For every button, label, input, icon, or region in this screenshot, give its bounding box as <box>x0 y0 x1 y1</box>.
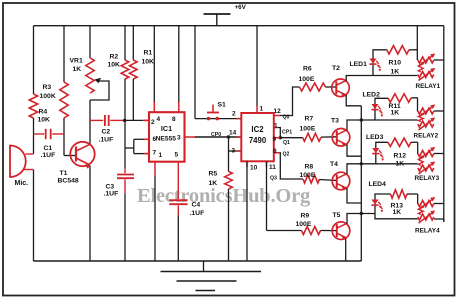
svg-text:R10: R10 <box>389 60 402 67</box>
wire: CP1 stub <box>274 127 278 129</box>
transistor T5 <box>332 222 350 240</box>
svg-text:R5: R5 <box>209 171 218 178</box>
svg-text:4: 4 <box>157 116 161 123</box>
svg-text:100E: 100E <box>299 76 315 83</box>
wire: Q2 output <box>274 152 280 154</box>
relay RELAY4 <box>418 201 434 207</box>
capacitor C1 <box>34 133 45 135</box>
resistor R7 <box>303 133 322 141</box>
resistor R5 <box>228 137 230 172</box>
svg-text:T3: T3 <box>331 118 339 125</box>
LED1 branch wire <box>373 50 387 76</box>
svg-text:Mic.: Mic. <box>15 180 29 187</box>
wire: T5 collector / channel 4 line <box>347 214 375 225</box>
resistor R13 <box>391 190 408 198</box>
resistor R2 <box>124 26 126 60</box>
wire: ground bus <box>34 260 362 262</box>
transistor T4 <box>332 172 350 190</box>
svg-text:RELAY3: RELAY3 <box>415 175 440 182</box>
LED LED2 <box>371 104 378 109</box>
svg-text:IC1: IC1 <box>161 124 172 133</box>
wire: T1 emitter to ground <box>89 166 91 262</box>
wire: CP0 line IC1 pin3 to IC2 pin14 <box>195 136 241 138</box>
svg-text:7490: 7490 <box>249 136 267 145</box>
transistor T3 <box>332 129 350 147</box>
svg-text:9: 9 <box>273 136 277 143</box>
wire: relay supply column ch1 <box>416 26 418 60</box>
node: trigger junction <box>123 119 126 122</box>
wire: Q3 to R9 <box>267 230 302 232</box>
wire: T2 collector / channel 1 line <box>346 76 417 82</box>
svg-text:Q0: Q0 <box>283 115 290 121</box>
wire: T3 emitter chain <box>347 145 361 157</box>
LED LED1 <box>369 59 376 64</box>
resistor R12 <box>388 138 411 146</box>
svg-text:T4: T4 <box>330 161 338 168</box>
wire: T5 emitter to ground <box>345 239 347 262</box>
svg-text:C3: C3 <box>106 184 115 191</box>
svg-text:100E: 100E <box>296 221 312 228</box>
wire: emitter/ground column <box>360 106 362 261</box>
svg-text:S1: S1 <box>218 102 227 109</box>
resistor R3 <box>60 82 68 118</box>
svg-text:LED4: LED4 <box>369 181 387 188</box>
wire: VR1 to T1 collector <box>89 100 91 145</box>
microphone Mic <box>10 146 26 178</box>
svg-text:1K: 1K <box>209 180 218 187</box>
svg-text:.1UF: .1UF <box>41 152 56 159</box>
potentiometer VR1 <box>89 26 91 58</box>
resistor R10 <box>387 46 409 54</box>
svg-text:RELAY4: RELAY4 <box>415 228 440 235</box>
svg-text:5: 5 <box>175 152 179 159</box>
resistor R9 <box>302 227 321 235</box>
wire: IC1 pin8 to rail <box>178 26 180 102</box>
resistor R11 <box>388 94 411 102</box>
IC1 pin stubs <box>144 119 149 121</box>
svg-text:R7: R7 <box>305 116 314 123</box>
svg-text:R2: R2 <box>110 54 119 61</box>
svg-text:LED2: LED2 <box>363 92 381 99</box>
svg-text:R9: R9 <box>301 213 310 220</box>
resistor R6 <box>300 83 326 91</box>
svg-text:RELAY2: RELAY2 <box>414 133 439 140</box>
svg-text:1K: 1K <box>391 110 400 117</box>
svg-text:8: 8 <box>172 116 176 123</box>
svg-text:10: 10 <box>250 165 258 172</box>
svg-text:Q1: Q1 <box>283 140 290 146</box>
capacitor C2 <box>90 119 103 121</box>
LED LED3 <box>372 148 379 153</box>
svg-text:10K: 10K <box>108 62 121 69</box>
wire: IC2 pin10 to ground <box>246 161 248 261</box>
wire: relay2 top feed <box>417 98 419 112</box>
svg-text:1K: 1K <box>396 161 405 168</box>
relay RELAY2 <box>418 108 434 114</box>
IC2 left pin stubs <box>237 118 242 120</box>
svg-text:C4: C4 <box>192 202 201 209</box>
svg-text:7: 7 <box>153 150 157 157</box>
svg-text:12: 12 <box>274 108 282 115</box>
wire: right +6V column <box>443 26 445 222</box>
svg-text:.1UF: .1UF <box>104 191 119 198</box>
svg-text:T2: T2 <box>332 65 340 72</box>
svg-text:11: 11 <box>269 164 276 171</box>
capacitor C3 <box>124 120 126 168</box>
wire: Q1 output <box>274 137 280 139</box>
LED4 branch wire <box>375 194 391 214</box>
wire: IC2 pin1 to rail <box>256 26 258 106</box>
svg-text:+6V: +6V <box>235 4 247 11</box>
svg-text:LED1: LED1 <box>350 61 368 68</box>
svg-text:8: 8 <box>273 148 277 155</box>
svg-text:BC548: BC548 <box>58 178 79 185</box>
svg-text:100K: 100K <box>40 93 56 100</box>
svg-text:3: 3 <box>177 135 181 142</box>
svg-text:1: 1 <box>274 123 278 130</box>
svg-text:IC2: IC2 <box>251 125 264 134</box>
svg-text:Q3: Q3 <box>270 176 277 182</box>
resistor R8 <box>303 175 320 183</box>
svg-text:2: 2 <box>232 111 236 118</box>
transistor T1 BC548 <box>64 155 76 157</box>
ground symbol <box>203 261 205 272</box>
LED3 branch wire <box>376 142 388 164</box>
svg-text:1K: 1K <box>393 209 402 216</box>
wire: IC1 pin1 to ground <box>154 176 156 261</box>
wire: IC1 pin6/pin7 tie <box>134 138 149 140</box>
wire: +6V top rail <box>34 25 444 27</box>
svg-text:100E: 100E <box>300 172 316 179</box>
svg-text:R4: R4 <box>39 109 48 116</box>
svg-text:VR1: VR1 <box>70 58 83 65</box>
svg-text:C1: C1 <box>44 145 53 152</box>
op-amp U2: IC2 7490 box <box>241 113 273 161</box>
wire: relay4 top feed <box>417 194 419 204</box>
svg-text:R6: R6 <box>303 66 312 73</box>
relay RELAY3 <box>418 151 434 157</box>
svg-text:CP1: CP1 <box>282 130 292 136</box>
svg-text:14: 14 <box>229 130 237 137</box>
LED2 branch wire <box>375 98 388 120</box>
wire: T3 collector / channel 2 line <box>347 120 418 131</box>
transistor T2 <box>332 79 350 97</box>
svg-text:CP0: CP0 <box>211 132 221 138</box>
node CP0 junction <box>227 135 230 138</box>
wire: relay4 bottom <box>375 214 418 219</box>
svg-text:2: 2 <box>151 119 155 126</box>
svg-text:R8: R8 <box>305 164 314 171</box>
svg-text:1K: 1K <box>73 66 82 73</box>
svg-text:NE555: NE555 <box>156 136 177 143</box>
svg-text:R1: R1 <box>144 50 153 57</box>
wire: Q0 output <box>274 115 280 117</box>
resistor R4 <box>29 94 37 118</box>
wire: T2 emitter chain <box>346 95 361 106</box>
svg-text:ElectronicsHub.Org: ElectronicsHub.Org <box>137 185 311 207</box>
relay RELAY1 <box>418 57 434 63</box>
+6V supply symbol <box>204 13 231 15</box>
wire: junction to IC1 pin2 <box>125 119 143 121</box>
svg-text:RELAY1: RELAY1 <box>416 83 441 90</box>
svg-text:T1: T1 <box>60 170 68 177</box>
LED LED4 <box>371 200 378 205</box>
wire: T4 collector / channel 3 line <box>347 164 418 174</box>
svg-text:6: 6 <box>153 136 157 143</box>
op-amp U1: IC1 NE555 box <box>149 112 185 162</box>
svg-text:.1UF: .1UF <box>99 137 114 144</box>
resistor R1 <box>132 26 134 60</box>
svg-text:LED3: LED3 <box>366 134 384 141</box>
capacitor C4 <box>177 162 179 199</box>
svg-text:1: 1 <box>260 106 264 113</box>
svg-text:1: 1 <box>159 152 163 159</box>
wire: IC2 pin11/Q3 down <box>266 161 268 230</box>
svg-text:10K: 10K <box>38 117 51 124</box>
svg-text:T5: T5 <box>333 212 341 219</box>
svg-text:1K: 1K <box>391 69 400 76</box>
svg-text:C2: C2 <box>102 129 111 136</box>
switch S1 <box>194 26 196 119</box>
svg-text:10K: 10K <box>142 59 155 66</box>
wire: R4/mic column <box>33 26 35 94</box>
wire: T4 emitter chain <box>347 188 361 203</box>
svg-text:R12: R12 <box>394 153 407 160</box>
wire: relay3 top feed <box>417 142 419 154</box>
svg-text:R3: R3 <box>43 84 52 91</box>
wire: IC2 pin3 to R5 column <box>229 150 242 152</box>
wire: R3/base column <box>63 26 65 82</box>
svg-text:100E: 100E <box>300 126 316 133</box>
wire: IC1 pin4 to rail <box>153 26 155 102</box>
svg-text:Q2: Q2 <box>283 152 290 158</box>
svg-text:.1UF: .1UF <box>190 210 205 217</box>
